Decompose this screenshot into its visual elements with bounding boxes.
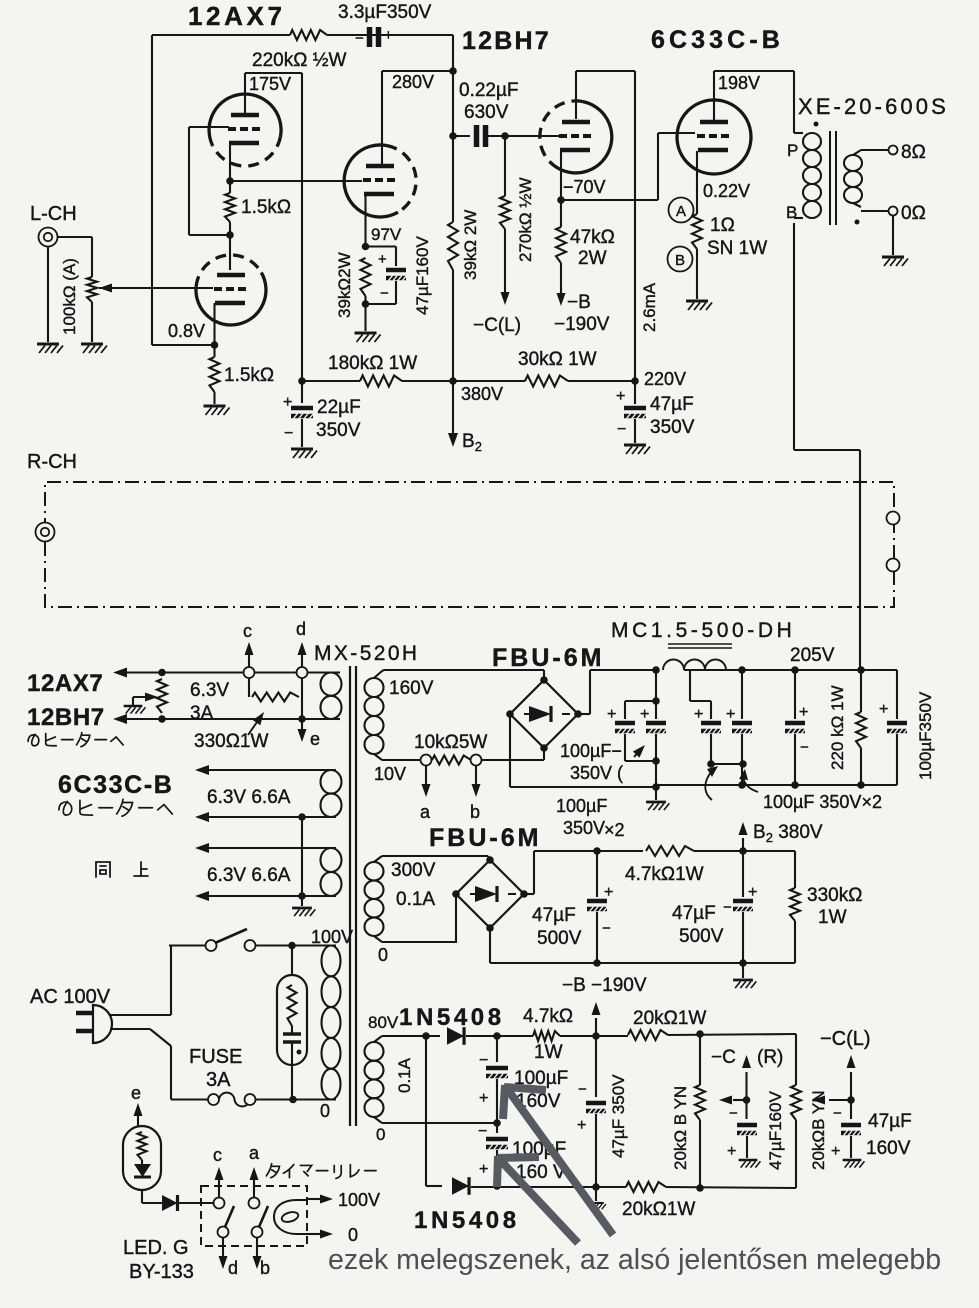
MX winding 160V: [365, 678, 384, 697]
svg-text:−B −190V: −B −190V: [562, 975, 647, 996]
ground heater: [292, 907, 312, 910]
svg-text:+: +: [640, 706, 649, 723]
svg-text:+: +: [694, 706, 703, 723]
arrow B2 down: [452, 381, 454, 434]
svg-text:0.22µF: 0.22µF: [459, 80, 519, 101]
svg-text:FUSE: FUSE: [189, 1046, 242, 1068]
svg-text:XE-20-600S: XE-20-600S: [798, 94, 949, 119]
svg-text:205V: 205V: [790, 645, 835, 666]
svg-text:1W: 1W: [534, 1042, 563, 1063]
node 426 top: [422, 1032, 430, 1040]
timer relay box dashed: [201, 1186, 307, 1246]
svg-text:30kΩ 1W: 30kΩ 1W: [518, 349, 597, 370]
capacitor 22uF350V: [301, 381, 303, 403]
svg-text:×2: ×2: [604, 820, 625, 840]
svg-text:6.3V 6.6A: 6.3V 6.6A: [207, 865, 291, 886]
capacitor 47uF500V second: [742, 851, 744, 897]
capacitor 100uF pair1 left: [624, 701, 626, 719]
svg-text:39kΩ2W: 39kΩ2W: [335, 252, 354, 318]
svg-text:+: +: [479, 1161, 488, 1178]
capacitor 100uF pair1 right: [625, 700, 656, 702]
svg-text:+: +: [799, 704, 808, 721]
svg-text:160V: 160V: [389, 678, 434, 699]
svg-text:B: B: [675, 252, 685, 269]
node 302-381: [298, 377, 306, 385]
wire plug bottom: [110, 1028, 150, 1030]
diode 1N5408 bottom: [452, 1177, 469, 1195]
node grid 12BH7: [501, 132, 509, 140]
svg-text:220kΩ ½W: 220kΩ ½W: [252, 50, 347, 71]
svg-text:+: +: [577, 1117, 586, 1134]
diode BY-133: [162, 1195, 178, 1211]
svg-text:c: c: [213, 1145, 222, 1165]
svg-text:97V: 97V: [371, 225, 402, 244]
svg-text:1Ω: 1Ω: [710, 215, 735, 236]
svg-text:+: +: [616, 388, 625, 405]
capacitor 100uF single mid: [794, 670, 796, 719]
svg-text:280V: 280V: [392, 72, 434, 92]
wire bridge1 plus: [578, 713, 590, 715]
svg-text:e: e: [131, 1083, 141, 1103]
svg-text:1N5408: 1N5408: [414, 1207, 520, 1234]
svg-text:+: +: [879, 701, 888, 718]
tube V3 6C33C-B: [677, 100, 751, 174]
svg-text:4.7kΩ1W: 4.7kΩ1W: [625, 864, 704, 885]
MX core: [349, 666, 351, 1126]
svg-text:0.22V: 0.22V: [703, 181, 750, 201]
svg-text:SN 1W: SN 1W: [707, 238, 767, 259]
svg-text:100µF−: 100µF−: [560, 741, 622, 761]
node B2 380V: [739, 847, 747, 855]
svg-text:−B: −B: [567, 292, 591, 313]
resistor 330ohm 1W: [248, 678, 250, 697]
svg-text:MX-520H: MX-520H: [314, 642, 420, 665]
svg-text:0.8V: 0.8V: [168, 321, 205, 341]
inductor MC choke: [663, 660, 726, 671]
capacitor 47uF350V topsection: [634, 381, 636, 404]
svg-text:12AX7: 12AX7: [188, 1, 286, 31]
pilot lamp neon: [291, 946, 293, 976]
svg-text:b: b: [260, 1258, 270, 1278]
node 497 bottom: [493, 1182, 501, 1190]
R-CH box outline: [45, 482, 894, 607]
AC plug: [76, 1011, 93, 1016]
capacitor 100uF160V lower: [496, 1123, 498, 1133]
node b2 597: [593, 847, 601, 855]
svg-text:FBU-6M: FBU-6M: [492, 644, 604, 672]
ground cathode 6C33C: [686, 300, 708, 303]
svg-text:L-CH: L-CH: [30, 203, 77, 225]
svg-text:−: −: [800, 739, 809, 756]
svg-text:e: e: [310, 729, 320, 749]
svg-text:350V: 350V: [316, 420, 361, 441]
capacitor 100uF160V upper: [496, 1036, 498, 1062]
svg-text:20kΩ B YN: 20kΩ B YN: [671, 1086, 690, 1170]
terminal d: [297, 667, 308, 678]
svg-text:a: a: [420, 802, 431, 822]
MX winding heater3: [321, 848, 342, 872]
ground supply2: [742, 963, 744, 978]
svg-text:c: c: [243, 621, 252, 641]
svg-text:+: +: [727, 1143, 736, 1160]
svg-text:330Ω1W: 330Ω1W: [194, 731, 268, 752]
arrow e2 up: [137, 1116, 139, 1126]
svg-text:+: +: [479, 1090, 488, 1107]
node 700 top: [696, 1030, 704, 1038]
wire top feedback rail: [152, 34, 290, 36]
wiper left pot: [733, 1099, 747, 1101]
wire 80V top: [374, 1036, 382, 1042]
svg-text:−: −: [602, 920, 611, 937]
capacitor 47uF350V bias: [595, 1036, 597, 1097]
arrow -C(L): [850, 1072, 852, 1100]
wire jack ground: [47, 246, 49, 342]
node minus rail gnd: [652, 783, 660, 791]
potentiometer 20kB YN left: [699, 1034, 701, 1085]
svg-text:2.6mA: 2.6mA: [640, 282, 659, 332]
svg-text:0: 0: [376, 1125, 385, 1144]
arrow c relay: [218, 1186, 220, 1197]
svg-text:160V: 160V: [866, 1138, 911, 1159]
wire y381 rail: [302, 380, 360, 382]
bridge2 FBU-6M: [488, 856, 490, 860]
node 700 bottom: [696, 1184, 704, 1192]
node below 39k: [362, 300, 370, 308]
svg-text:6C33C-B: 6C33C-B: [651, 26, 784, 54]
node 453-381: [449, 377, 457, 385]
svg-text:6C33C-B: 6C33C-B: [58, 771, 173, 799]
tube V1b 12AX7 lower: [196, 255, 261, 287]
svg-text:0.1A: 0.1A: [395, 1057, 414, 1093]
wire V1a cathode to resistor: [229, 145, 231, 193]
wire heater bottom: [126, 718, 336, 720]
svg-text:0: 0: [378, 945, 388, 965]
wire 300V top: [374, 856, 382, 862]
resistor 180k 1W: [360, 376, 402, 387]
svg-text:FBU-6M: FBU-6M: [429, 824, 541, 852]
arrow relay 100V: [307, 1198, 320, 1200]
node 743-965: [739, 959, 747, 967]
capacitor 100uF pair2 left: [689, 670, 691, 701]
wire 6.3V 6.6A top1: [208, 769, 336, 771]
svg-text:1.5kΩ: 1.5kΩ: [224, 365, 274, 386]
svg-text:−: −: [617, 421, 626, 438]
label no-heater-he 1: [28, 733, 123, 747]
wire x635 to 220V: [634, 71, 636, 381]
svg-text:P: P: [787, 141, 798, 160]
tube V2b 12BH7 right: [540, 101, 583, 168]
wire bridge1 minus: [509, 714, 511, 787]
svg-text:0: 0: [348, 1225, 358, 1245]
resistor 1.5k upper: [225, 193, 235, 222]
potentiometer 100k(A): [87, 277, 97, 302]
svg-text:d: d: [228, 1258, 238, 1278]
node 861-670: [857, 666, 865, 674]
svg-text:0.1A: 0.1A: [396, 889, 435, 910]
wire lamp to fuse rail: [291, 1065, 293, 1100]
potentiometer 20kB YN right: [791, 1085, 801, 1120]
wire V1a grid loop: [189, 126, 229, 128]
wire plate-x302 vertical: [301, 73, 303, 381]
resistor 20k1W bottom: [596, 1186, 626, 1188]
wire 10k tap: [374, 754, 382, 760]
R-CH output terminal 1: [887, 512, 900, 525]
svg-text:20kΩ1W: 20kΩ1W: [633, 1008, 706, 1029]
svg-text:1.5kΩ: 1.5kΩ: [241, 197, 291, 218]
wire 97V to cap: [366, 245, 397, 247]
svg-text:47µF: 47µF: [868, 1111, 912, 1132]
svg-text:20kΩ1W: 20kΩ1W: [622, 1199, 695, 1220]
svg-text:+: +: [607, 706, 616, 723]
arrow a tap: [425, 766, 427, 784]
bridge1 FBU-6M: [543, 670, 545, 680]
wire B lead down: [793, 223, 795, 450]
svg-text:−: −: [355, 30, 364, 47]
phase dot primary: [814, 122, 819, 127]
svg-text:B: B: [786, 203, 797, 222]
ground 0ohm: [892, 216, 894, 255]
svg-text:+: +: [831, 1143, 840, 1160]
node hum top: [158, 669, 166, 677]
node d-e: [298, 715, 306, 723]
wire V3 plate 198V: [713, 71, 715, 120]
svg-text:47µF160V: 47µF160V: [413, 236, 432, 315]
node 596 bottom: [592, 1183, 600, 1191]
node 497 top: [493, 1032, 501, 1040]
wire 6.3V 6.6A bot1: [208, 816, 336, 818]
node 497 mid: [493, 1119, 501, 1127]
node V1a cathode junction: [226, 177, 234, 185]
svg-text:500V: 500V: [537, 928, 582, 949]
circled A: [669, 198, 694, 223]
svg-text:20kΩB YN: 20kΩB YN: [809, 1091, 828, 1171]
resistor 1.5k lower: [213, 345, 215, 357]
resistor 1ohm SN1W: [692, 214, 702, 249]
svg-text:47µF: 47µF: [650, 394, 694, 415]
svg-text:6.3V 6.6A: 6.3V 6.6A: [207, 787, 291, 808]
MX winding heater1: [321, 673, 342, 696]
wire jack to pot: [57, 236, 92, 238]
wire 0ohm: [861, 210, 888, 212]
label 100uF350V pair2 arrows: [705, 768, 716, 800]
circled B: [668, 247, 693, 272]
arrow e down: [301, 719, 303, 729]
switch relay c-d: [214, 1198, 225, 1209]
arrow a relay: [253, 1180, 255, 1197]
resistor 270k grid: [504, 136, 506, 196]
svg-text:−: −: [578, 1081, 587, 1098]
svg-text:−70V: −70V: [563, 177, 606, 197]
wire left feedback vertical: [151, 35, 153, 345]
wire bridge2 plus rail: [524, 893, 534, 895]
wire 160V top: [384, 669, 544, 671]
svg-text:A: A: [676, 203, 686, 220]
svg-text:−C(L): −C(L): [473, 315, 521, 336]
node 795: [791, 666, 799, 674]
phase dot secondary: [855, 220, 860, 225]
svg-text:1W: 1W: [818, 907, 847, 928]
switch power: [169, 944, 206, 946]
OPT secondary coil: [844, 155, 862, 171]
wire LED to diode: [141, 1190, 143, 1203]
svg-text:350V: 350V: [650, 417, 695, 438]
svg-text:3.3µF350V: 3.3µF350V: [338, 2, 432, 23]
svg-text:47µF: 47µF: [532, 905, 576, 926]
svg-text:47µF160V: 47µF160V: [766, 1091, 785, 1170]
svg-text:+: +: [604, 884, 613, 901]
svg-text:22µF: 22µF: [317, 397, 361, 418]
node heater2: [298, 813, 306, 821]
svg-text:175V: 175V: [249, 74, 291, 94]
node 596 top: [592, 1032, 600, 1040]
node switch-lamp: [288, 942, 296, 950]
svg-text:47µF: 47µF: [672, 903, 716, 924]
arrow to -B: [595, 1018, 597, 1036]
arrow d up: [301, 655, 303, 667]
svg-text:350V: 350V: [563, 818, 605, 838]
svg-text:270kΩ ½W: 270kΩ ½W: [516, 177, 535, 262]
resistor hum balance: [157, 679, 167, 713]
svg-text:330kΩ: 330kΩ: [807, 885, 862, 906]
wire bottom rail supply1: [656, 784, 897, 786]
svg-text:B2 380V: B2 380V: [753, 822, 823, 845]
svg-text:6.3V: 6.3V: [190, 680, 229, 701]
node 453-71: [449, 67, 457, 75]
svg-text:d: d: [296, 619, 306, 639]
resistor 30k 1W: [525, 376, 568, 387]
svg-text:−: −: [380, 285, 389, 302]
arrow -C(R): [745, 1072, 747, 1100]
node 597-963: [593, 959, 601, 967]
svg-text:LED. G: LED. G: [123, 1237, 189, 1259]
svg-text:100V: 100V: [311, 927, 353, 947]
tube V1a 12AX7 upper: [212, 136, 280, 166]
svg-text:220 kΩ 1W: 220 kΩ 1W: [828, 685, 847, 770]
svg-text:500V: 500V: [679, 926, 724, 947]
svg-text:100µF 350V×2: 100µF 350V×2: [763, 792, 882, 812]
node 635-381 220V: [631, 377, 639, 385]
output transformer primary lead: [793, 71, 795, 133]
node 742: [738, 666, 746, 674]
svg-text:−: −: [723, 899, 732, 916]
node -70V: [557, 196, 565, 204]
svg-text:(R): (R): [757, 1047, 783, 1068]
svg-text:−: −: [478, 1123, 487, 1140]
wire 300V bottom: [374, 936, 382, 942]
wire V2b plate: [575, 71, 577, 119]
node 453-136: [449, 132, 457, 140]
MX winding heater2: [321, 770, 342, 794]
capacitor 100uF pair2 right: [741, 670, 743, 719]
wire minus rail: [510, 786, 656, 788]
wire grid V1b from pot: [99, 287, 213, 289]
svg-text:−190V: −190V: [554, 314, 610, 335]
svg-text:47kΩ: 47kΩ: [570, 227, 615, 248]
node 97V: [362, 243, 370, 251]
svg-text:R-CH: R-CH: [27, 451, 77, 473]
svg-text:100µF350V: 100µF350V: [916, 691, 935, 780]
wire left bias loop: [425, 1036, 427, 1186]
svg-text:100V: 100V: [338, 1190, 380, 1210]
arrow relay 0: [307, 1233, 320, 1235]
svg-text:+: +: [283, 394, 292, 411]
resistor 4.7k 1W supply: [646, 846, 694, 856]
resistor 39k2W rail: [448, 222, 458, 270]
MX winding 80V: [365, 1042, 384, 1061]
relay coil: [274, 1200, 307, 1234]
MX primary winding: [322, 946, 341, 977]
OPT core: [829, 131, 831, 225]
resistor 47k 2W: [556, 227, 566, 263]
svg-text:+: +: [726, 706, 735, 723]
svg-text:0: 0: [320, 1101, 330, 1121]
diode 1N5408 top: [447, 1027, 464, 1045]
arrow b tap: [475, 766, 477, 784]
svg-text:12BH7: 12BH7: [462, 27, 551, 55]
ground under 1.5k: [204, 405, 226, 408]
arrow d relay: [222, 1238, 224, 1256]
grey arrow lower cap: [501, 1161, 578, 1243]
svg-text:a: a: [249, 1143, 260, 1163]
svg-text:ezek melegszenek, az alsó jele: ezek melegszenek, az alsó jelentősen mel…: [328, 1244, 941, 1276]
ground hum with arrow: [124, 705, 143, 708]
wire V1a plate lead: [244, 73, 246, 113]
wire V2a cathode to 97V: [364, 194, 366, 247]
capacitor 47uF160V R: [745, 1100, 747, 1119]
arrow c up: [248, 655, 250, 667]
ground 97V cluster: [355, 332, 377, 335]
svg-text:BY-133: BY-133: [129, 1261, 194, 1283]
resistor 39k 2W cathode: [361, 258, 371, 296]
capacitor 47uF160V L: [850, 1100, 852, 1119]
svg-text:−C(L): −C(L): [820, 1028, 871, 1050]
svg-text:380V: 380V: [461, 384, 503, 404]
MX winding 300V: [365, 862, 384, 880]
LED lamp: [123, 1126, 161, 1190]
capacitor 3.3uF350V: [367, 27, 373, 47]
R-CH output terminal 2: [887, 559, 900, 572]
tube V2a 12BH7 left: [386, 146, 416, 213]
label no-heater-he 2: [59, 799, 172, 816]
resistor 20k 1W top: [596, 1035, 628, 1037]
terminal c: [244, 667, 255, 678]
wire 205V rail: [733, 669, 897, 671]
svg-text:220V: 220V: [644, 369, 686, 389]
svg-text:12AX7: 12AX7: [27, 670, 103, 697]
svg-text:−: −: [833, 1105, 842, 1122]
node hum bottom: [158, 715, 166, 723]
capacitor 47uF500V first: [596, 851, 598, 897]
fuse: [171, 1098, 208, 1100]
resistor 4.7k 1W bias: [533, 1031, 560, 1041]
wire -70V to 6C33C grid: [561, 199, 658, 201]
wire 6.3V 6.6A bot2: [208, 895, 336, 897]
wire interstage y181: [230, 180, 362, 182]
svg-text:80V: 80V: [368, 1013, 399, 1032]
svg-text:39kΩ 2W: 39kΩ 2W: [461, 210, 480, 280]
svg-text:−: −: [284, 425, 293, 442]
svg-text:100µF: 100µF: [556, 796, 607, 816]
wire right bias right side: [795, 1034, 797, 1085]
svg-text:198V: 198V: [718, 73, 760, 93]
wire heater ground link: [301, 817, 303, 896]
svg-text:+: +: [384, 27, 393, 44]
node fuse-lamp: [289, 1096, 297, 1104]
svg-text:1N5408: 1N5408: [399, 1004, 505, 1031]
svg-text:MC1.5-500-DH: MC1.5-500-DH: [611, 619, 795, 642]
node 0.8V: [211, 341, 219, 349]
resistor 330k 1W: [794, 851, 796, 888]
